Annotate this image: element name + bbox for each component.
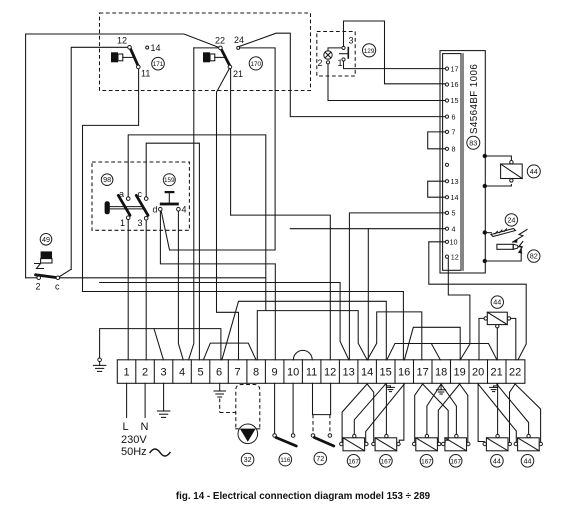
ref 82	[528, 250, 540, 262]
svg-text:3: 3	[138, 218, 143, 228]
svg-text:N: N	[141, 421, 149, 433]
wire 21 to t12	[231, 215, 331, 360]
svg-text:c: c	[55, 282, 60, 292]
svg-text:12: 12	[117, 36, 127, 46]
pin 13	[445, 180, 448, 183]
ref 167 d	[449, 455, 462, 468]
wire pin12 to t19	[448, 259, 470, 360]
svg-text:8: 8	[452, 145, 456, 154]
svg-text:9: 9	[272, 366, 278, 378]
relay K2 167	[372, 434, 401, 450]
svg-text:16: 16	[451, 80, 459, 89]
svg-text:L: L	[123, 421, 129, 433]
wire lamp top to contact 3	[328, 48, 342, 51]
switch 98 link	[110, 206, 143, 208]
svg-text:44: 44	[493, 456, 501, 465]
svg-text:14: 14	[451, 193, 459, 202]
terminal strip X1	[117, 360, 525, 384]
wire t22 to K5 right	[510, 384, 516, 442]
wire t17 to K4 left	[423, 384, 449, 442]
pin 12	[445, 255, 448, 258]
wire L-feed top	[26, 34, 219, 278]
jumper t11-t12	[313, 383, 331, 414]
relay K6 44	[514, 434, 542, 450]
wire t16 to K2 right	[399, 384, 404, 442]
ref 44 b	[521, 455, 534, 468]
wire 159-d to t9	[160, 211, 275, 360]
svg-text:116: 116	[280, 457, 291, 464]
earth symbol under t21	[490, 384, 498, 392]
ref 129	[363, 44, 376, 57]
svg-text:5: 5	[452, 209, 456, 218]
ref 167 c	[420, 455, 433, 468]
svg-text:7: 7	[452, 128, 456, 137]
relay 44 top	[484, 312, 511, 328]
wire t20 to K6 left	[478, 384, 516, 442]
switch 116	[273, 434, 296, 446]
wire t20 to K5 left	[478, 384, 484, 442]
svg-text:a: a	[119, 189, 124, 199]
svg-text:10: 10	[450, 238, 458, 247]
svg-text:32: 32	[244, 455, 252, 464]
relay K1 167	[340, 434, 369, 450]
svg-text:11: 11	[141, 69, 150, 79]
contact 129	[342, 46, 345, 49]
wire 129-1 to pin17	[344, 61, 446, 69]
svg-text:44: 44	[493, 298, 501, 307]
pin 4	[445, 227, 448, 230]
wire t14 to K1 left	[342, 384, 367, 442]
svg-text:129: 129	[364, 48, 375, 55]
wire 44top left to t20	[479, 318, 484, 359]
wire t18 to K4 top	[441, 384, 456, 434]
earth symbol left	[93, 358, 105, 371]
wire t21 to K6 top	[497, 384, 529, 434]
relay K5 44	[483, 434, 511, 450]
svg-text:19: 19	[453, 366, 465, 378]
svg-text:16: 16	[398, 366, 410, 378]
switch 159 cap	[165, 191, 175, 193]
svg-text:7: 7	[235, 366, 241, 378]
controller inner column	[443, 54, 461, 271]
ref 32	[241, 453, 254, 466]
svg-text:167: 167	[348, 458, 359, 465]
svg-text:159: 159	[164, 177, 175, 184]
thermostat 49 bulb	[41, 251, 52, 258]
wire link t16 to t19	[404, 327, 460, 360]
wire t17 to K3 left	[415, 384, 423, 442]
switch 159 bar	[160, 203, 179, 206]
thermostat ST1 bulb	[111, 52, 118, 62]
thermostat ST2 switch 170	[222, 50, 230, 66]
wire t10 down	[292, 383, 294, 433]
svg-text:1: 1	[338, 58, 343, 68]
svg-text:17: 17	[451, 64, 459, 73]
wire t16 to K1 right	[366, 384, 405, 442]
pump dashed box	[236, 385, 260, 428]
pin 10	[445, 240, 448, 243]
switch 98 pole 2	[136, 195, 148, 215]
thermostat ST1 switch 171	[131, 49, 138, 65]
lamp 129	[324, 51, 332, 59]
wire t15 to K2 top	[385, 384, 387, 434]
wire PE branch to t3	[154, 329, 163, 360]
pin 16	[445, 83, 448, 86]
wire 98-3 to t2	[145, 220, 147, 360]
wire 170-21 stub	[230, 69, 232, 215]
svg-text:171: 171	[153, 61, 164, 68]
wire t19 to K3 right	[438, 384, 459, 442]
svg-text:S4564BF 1006: S4564BF 1006	[469, 64, 480, 134]
ref 167 b	[380, 455, 393, 468]
svg-text:167: 167	[450, 458, 461, 465]
wire pin5 to t13	[349, 213, 445, 360]
switch 98 contacts	[126, 197, 130, 201]
wire link arc t10-t11	[293, 350, 312, 359]
earth symbol under t18	[437, 384, 446, 394]
svg-text:72: 72	[316, 454, 324, 463]
switch 159 contacts	[159, 207, 163, 211]
thermostat 49	[40, 234, 52, 246]
ref 116	[279, 453, 292, 466]
switch 98 pole 1	[118, 195, 130, 215]
svg-text:98: 98	[103, 175, 111, 184]
wire bridge t15-t18	[387, 344, 497, 360]
svg-text:22: 22	[215, 36, 225, 46]
svg-text:fig. 14 - Electrical connectio: fig. 14 - Electrical connection diagram …	[176, 491, 431, 502]
svg-text:24: 24	[507, 215, 515, 224]
wire 170-21 drop to t7	[217, 69, 239, 360]
wire 11 down-left	[83, 69, 139, 292]
wire t1 L	[126, 383, 128, 417]
ref 24	[505, 214, 517, 226]
svg-text:6: 6	[216, 366, 222, 378]
wire 49-2 rail	[26, 277, 37, 279]
svg-text:13: 13	[342, 366, 354, 378]
ref 44 right	[527, 165, 540, 178]
ignition electrode 24	[485, 229, 527, 243]
wire 98-1 to t1	[127, 220, 129, 360]
ref 44 top	[491, 296, 503, 308]
svg-text:20: 20	[472, 366, 484, 378]
wire pin4 to t14	[290, 228, 445, 230]
wire 49-c to a-rail	[60, 277, 266, 279]
svg-text:2: 2	[36, 282, 41, 292]
svg-text:83: 83	[469, 138, 477, 147]
svg-text:4: 4	[182, 205, 187, 215]
svg-text:15: 15	[379, 366, 391, 378]
switch 72 dashed leads	[312, 415, 314, 434]
box 98-159 dashed	[92, 162, 189, 230]
thermostat ST2 bulb	[203, 52, 210, 62]
wire PE earth riser	[100, 329, 221, 360]
ref 170	[249, 57, 262, 70]
pin 17	[445, 67, 448, 70]
jumper pins 7-8	[428, 132, 446, 149]
wire pin10 to t22	[429, 242, 526, 360]
svg-text:14: 14	[151, 43, 161, 53]
svg-text:1: 1	[124, 366, 130, 378]
svg-text:d: d	[153, 205, 158, 215]
svg-text:10: 10	[287, 366, 299, 378]
pin 6	[445, 115, 448, 118]
svg-text:170: 170	[250, 61, 261, 68]
svg-text:2: 2	[318, 58, 323, 68]
wire t9 down	[274, 383, 276, 433]
wire t18 to K3 top	[427, 384, 441, 434]
svg-text:50Hz: 50Hz	[121, 446, 147, 458]
svg-text:44: 44	[524, 456, 532, 465]
controller U1 S4564BF outer	[440, 51, 485, 273]
svg-text:15: 15	[451, 96, 459, 105]
jumper pins 13-14	[428, 181, 446, 197]
svg-text:8: 8	[253, 366, 259, 378]
wire t14 to K2 left	[367, 384, 374, 442]
relay K4 167	[442, 434, 470, 450]
ref 72	[314, 452, 327, 465]
wire t19 to K4 right	[460, 384, 468, 442]
wire t2 N	[144, 383, 146, 417]
wire 170-24 to pin6	[239, 33, 445, 116]
relay 44 right	[501, 161, 523, 183]
pump 32	[236, 424, 260, 444]
ref 159	[163, 174, 175, 186]
ref 44 a	[491, 455, 504, 468]
svg-text:12: 12	[451, 252, 459, 261]
switch 98 handle	[105, 201, 110, 214]
svg-text:4: 4	[179, 366, 185, 378]
svg-text:17: 17	[416, 366, 428, 378]
wire t6 diag feed	[222, 301, 386, 360]
box 129 dashed	[317, 32, 355, 77]
dashed enclosure thermostats	[100, 13, 311, 91]
svg-text:12: 12	[324, 366, 336, 378]
thermostat 49 contact	[36, 275, 58, 278]
symbol AC	[150, 449, 170, 456]
wire t6 earth dashed	[219, 383, 221, 391]
svg-text:3: 3	[349, 36, 354, 46]
svg-text:1: 1	[120, 218, 125, 228]
wire 159-4 to t4	[178, 211, 183, 360]
wire t8 rail to t14	[257, 311, 367, 360]
wire t15 to K1 top	[354, 384, 385, 434]
wire 44top bottom to t21	[496, 328, 498, 360]
wire 170-22 drop to t4	[189, 48, 194, 360]
svg-text:3: 3	[161, 366, 167, 378]
wire t3 earth	[163, 383, 165, 411]
junction dots on right edge	[483, 154, 487, 158]
relay 44 right wiring	[485, 156, 512, 160]
pin 15	[445, 99, 448, 102]
wire 98-a riser	[128, 135, 266, 311]
svg-text:13: 13	[451, 177, 459, 186]
terminal numbers	[124, 366, 522, 378]
ref 167 a	[347, 455, 360, 468]
wire lamp-2 to pin15	[328, 64, 445, 101]
svg-text:6: 6	[452, 112, 456, 121]
svg-text:49: 49	[42, 235, 50, 244]
pin 8	[445, 147, 448, 150]
pin 14	[445, 196, 448, 199]
pin blank	[445, 163, 448, 166]
wire 44top right to t22	[511, 318, 516, 359]
pin 5	[445, 211, 448, 214]
svg-text:2: 2	[142, 366, 148, 378]
earth symbol under t15	[386, 384, 394, 392]
wire t14 rail to t17	[367, 312, 422, 360]
svg-text:21: 21	[233, 69, 243, 79]
thermostat 49 reset arrow	[35, 264, 44, 269]
pin 7	[445, 130, 448, 133]
svg-text:44: 44	[530, 167, 538, 176]
svg-text:c: c	[138, 189, 143, 199]
wire L-rail to t16	[83, 292, 404, 360]
ref 98	[101, 174, 113, 186]
wire 98-c riser	[146, 143, 199, 360]
wire 12 feed	[71, 47, 127, 269]
wire c up to 12-feed	[60, 269, 72, 276]
wire 170-24 to switch 159 d	[161, 48, 275, 250]
switch 72	[311, 434, 334, 446]
svg-text:11: 11	[306, 366, 317, 378]
wire to t13 upper	[100, 283, 349, 360]
ref 171	[152, 57, 165, 70]
wire trapezoid t5-t8	[203, 343, 256, 360]
svg-text:18: 18	[435, 366, 447, 378]
svg-text:167: 167	[421, 458, 432, 465]
svg-text:21: 21	[490, 366, 502, 378]
svg-text:14: 14	[361, 366, 373, 378]
svg-text:4: 4	[452, 224, 456, 233]
svg-text:22: 22	[509, 366, 521, 378]
svg-text:167: 167	[381, 458, 392, 465]
earth symbol mains	[157, 411, 169, 417]
wire t21 to K5 top	[497, 384, 499, 434]
svg-text:82: 82	[530, 252, 538, 261]
wire 129-3 loop to pin16	[344, 21, 446, 84]
detection electrode 82	[485, 242, 523, 262]
wire t22 to K6 right	[515, 384, 541, 442]
svg-text:24: 24	[234, 35, 244, 45]
earth symbol pump PE	[214, 391, 225, 397]
ref 83	[467, 136, 480, 149]
svg-text:230V: 230V	[121, 434, 147, 446]
svg-text:5: 5	[198, 366, 204, 378]
relay K3 167	[412, 434, 441, 450]
